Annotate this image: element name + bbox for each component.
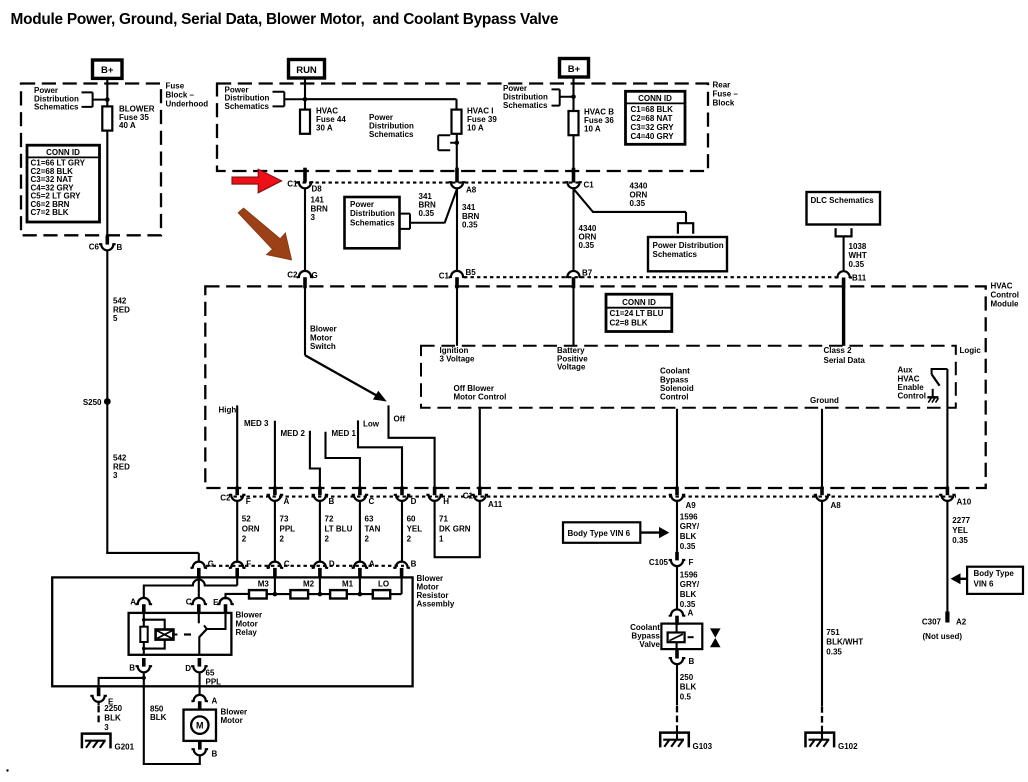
- connector pin H: [433, 487, 437, 496]
- chain segment: [267, 593, 291, 595]
- power symbol RUN: [289, 60, 325, 79]
- svg-text:MED 2: MED 2: [281, 429, 306, 438]
- valve actuator dash: [688, 636, 694, 638]
- blower motor relay box: [129, 613, 232, 655]
- connector pin E (ground lead): [97, 688, 101, 697]
- junction dot RUN: [303, 97, 308, 102]
- svg-text:B7: B7: [582, 269, 593, 278]
- CONN ID table (rear fuse block): [626, 91, 686, 144]
- svg-text:C1=24 LT BLU: C1=24 LT BLU: [610, 309, 664, 318]
- schematic ref box Power Distribution (4340): [648, 237, 727, 271]
- svg-text:B+: B+: [101, 65, 114, 76]
- chain segment: [308, 593, 330, 595]
- svg-text:Motor Control: Motor Control: [454, 393, 507, 402]
- svg-text:C: C: [186, 597, 192, 606]
- svg-text:BLK: BLK: [104, 714, 121, 723]
- svg-text:0.35: 0.35: [462, 220, 478, 229]
- wire B+ to fuse 35: [106, 78, 108, 106]
- svg-text:Control: Control: [660, 393, 688, 402]
- wire ground: [821, 409, 823, 488]
- aux switch ground: [932, 389, 934, 397]
- svg-text:A8: A8: [466, 186, 477, 195]
- svg-text:C1: C1: [584, 181, 595, 190]
- svg-text:High: High: [219, 406, 237, 415]
- coolant bypass valve pin A: [669, 609, 686, 615]
- svg-text:F: F: [246, 497, 251, 506]
- bracket fuse 39: [438, 135, 457, 150]
- splice S250: [104, 398, 111, 405]
- svg-text:C1: C1: [463, 492, 474, 501]
- svg-text:TAN: TAN: [365, 525, 381, 534]
- relay pin C: [191, 598, 208, 604]
- svg-text:B: B: [329, 497, 335, 506]
- wire D drop: [319, 577, 321, 594]
- svg-text:G201: G201: [115, 743, 135, 752]
- connector B11: [835, 271, 852, 277]
- logic dashed box: [421, 346, 956, 408]
- svg-text:Serial Data: Serial Data: [824, 356, 866, 365]
- wire 542 RED 3: [106, 403, 108, 554]
- svg-text:RUN: RUN: [296, 65, 317, 76]
- svg-text:G: G: [208, 560, 214, 569]
- svg-text:DK GRN: DK GRN: [439, 525, 471, 534]
- svg-text:B: B: [129, 664, 135, 673]
- relay coil (solenoid): [144, 620, 165, 630]
- relay pin E: [217, 598, 234, 604]
- bracket 341: [400, 214, 445, 229]
- blower motor switch arm: [305, 355, 378, 396]
- wire 1596 GRY/BLK lower: [676, 566, 678, 610]
- wire off blower control: [479, 409, 481, 488]
- svg-text:65: 65: [206, 669, 215, 678]
- wire A drop: [359, 577, 361, 594]
- svg-text:1038: 1038: [849, 242, 867, 251]
- relay pin D: [198, 658, 202, 667]
- svg-text:C3=32 GRY: C3=32 GRY: [631, 123, 675, 132]
- wire 1596 GRY/BLK: [676, 501, 678, 552]
- connector C1 (rear block): [572, 168, 576, 183]
- wire 72 LT BLU 2: [319, 501, 321, 562]
- svg-text:CONN ID: CONN ID: [638, 94, 672, 103]
- svg-text:1: 1: [439, 535, 444, 544]
- connector pin A (resistor assembly): [352, 562, 369, 568]
- svg-text:1596: 1596: [680, 570, 698, 579]
- svg-text:D: D: [411, 497, 417, 506]
- svg-text:72: 72: [325, 515, 334, 524]
- dotted connector line row3: [234, 496, 957, 498]
- wire 341 branch to A8: [445, 188, 458, 223]
- svg-text:3: 3: [311, 213, 316, 222]
- svg-text:Module Power, Ground, Serial D: Module Power, Ground, Serial Data, Blowe…: [11, 11, 559, 28]
- svg-text:Control: Control: [898, 392, 926, 401]
- wire 341 BRN 0.35 down: [456, 189, 458, 272]
- svg-text:S250: S250: [83, 398, 102, 407]
- svg-text:Body Type: Body Type: [974, 569, 1015, 578]
- junction dot: [105, 97, 110, 102]
- svg-text:M3: M3: [258, 580, 270, 589]
- svg-text:Ground: Ground: [810, 396, 839, 405]
- svg-text:A: A: [212, 697, 218, 706]
- bracket to wire (left): [82, 92, 108, 107]
- wire coolant bypass control: [676, 409, 678, 488]
- svg-text:C307: C307: [922, 618, 942, 627]
- brown arrow marker: [238, 208, 291, 260]
- svg-text:10 A: 10 A: [467, 123, 484, 132]
- connector C105 pin F: [675, 552, 679, 561]
- svg-text:ORN: ORN: [242, 525, 260, 534]
- relay pin B: [142, 658, 146, 667]
- svg-text:E: E: [213, 598, 219, 607]
- svg-text:C: C: [284, 560, 290, 569]
- svg-text:BLK: BLK: [150, 713, 167, 722]
- svg-text:F: F: [689, 558, 694, 567]
- wire RUN bus to fuse 39: [305, 98, 457, 100]
- aux hvac enable switch: [932, 369, 948, 374]
- svg-text:B+: B+: [568, 64, 581, 75]
- dotted connector line row4: [206, 565, 404, 567]
- wire 52 ORN 2: [236, 501, 238, 562]
- svg-text:Block: Block: [713, 99, 735, 108]
- dashed wire to G102: [821, 706, 823, 726]
- svg-text:YEL: YEL: [407, 525, 423, 534]
- schematic ref box DLC Schematics: [807, 192, 881, 225]
- CONN ID table (underhood): [27, 145, 100, 222]
- chain end to B: [390, 593, 401, 595]
- connector pin D (resistor assembly): [312, 562, 329, 568]
- svg-text:MED 1: MED 1: [332, 429, 357, 438]
- svg-text:3 Voltage: 3 Voltage: [440, 354, 476, 363]
- svg-text:A: A: [369, 560, 375, 569]
- svg-text:Class 2: Class 2: [824, 346, 853, 355]
- svg-text:Motor: Motor: [221, 716, 243, 725]
- svg-text:WHT: WHT: [849, 251, 867, 260]
- svg-text:PPL: PPL: [206, 677, 222, 686]
- connector pin C (resistor assembly): [267, 562, 284, 568]
- svg-text:F: F: [246, 560, 251, 569]
- connector pin A9: [675, 487, 679, 496]
- svg-text:A9: A9: [686, 501, 697, 510]
- svg-text:PPL: PPL: [280, 525, 296, 534]
- svg-text:C7=2 BLK: C7=2 BLK: [31, 208, 69, 217]
- branch to G201: [99, 678, 144, 688]
- wire G to relay C: [198, 577, 200, 598]
- svg-text:2277: 2277: [952, 516, 970, 525]
- connector C2 pin G: [297, 271, 314, 277]
- wire aux to A10: [946, 369, 948, 487]
- bracket to B+ wire (rear): [552, 89, 574, 105]
- svg-text:HVAC: HVAC: [991, 282, 1013, 291]
- svg-text:C2=8 BLK: C2=8 BLK: [610, 318, 648, 327]
- connector pin F: [235, 487, 239, 496]
- svg-text:40 A: 40 A: [119, 121, 136, 130]
- svg-text:Distribution: Distribution: [350, 209, 395, 218]
- svg-text:0.35: 0.35: [952, 536, 968, 545]
- connector C307 pin A2 (not used): [945, 612, 949, 623]
- svg-text:C6: C6: [89, 243, 100, 252]
- svg-text:30 A: 30 A: [316, 123, 333, 132]
- connector A8: [455, 168, 459, 183]
- ground G201: [82, 734, 111, 749]
- svg-text:60: 60: [407, 515, 416, 524]
- connector B7: [565, 271, 582, 277]
- wire fuse 35 to C6: [106, 131, 108, 236]
- wire C drop: [274, 577, 276, 594]
- wire B5 into module: [456, 287, 458, 346]
- svg-text:Voltage: Voltage: [557, 363, 586, 372]
- svg-text:Valve: Valve: [639, 640, 660, 649]
- svg-text:B: B: [117, 243, 123, 252]
- svg-text:A: A: [284, 497, 290, 506]
- wire 73 PPL 2: [274, 501, 276, 562]
- svg-text:Fuse –: Fuse –: [713, 90, 739, 99]
- svg-text:Off: Off: [394, 414, 406, 423]
- resistor LO: [373, 590, 390, 598]
- svg-text:BLK: BLK: [680, 590, 697, 599]
- CONN ID table (HVAC module): [606, 294, 672, 331]
- svg-text:A10: A10: [957, 497, 972, 506]
- svg-text:73: 73: [280, 515, 289, 524]
- blower motor: [191, 695, 208, 701]
- coolant bypass valve pin B: [675, 650, 679, 659]
- svg-text:A2: A2: [956, 618, 967, 627]
- coolant bypass valve: [661, 624, 702, 650]
- relay coil resistor: [143, 614, 145, 627]
- svg-text:10 A: 10 A: [584, 124, 601, 133]
- top fuse panel dashed box: [217, 84, 708, 172]
- relay switch: [198, 614, 200, 624]
- dotted connector line row2: [464, 276, 836, 278]
- svg-text:C2: C2: [287, 270, 298, 279]
- wire B+ rear down: [572, 77, 574, 111]
- svg-text:C105: C105: [649, 558, 669, 567]
- ground G102: [806, 733, 835, 748]
- blower motor pin B: [198, 741, 202, 750]
- svg-text:Underhood: Underhood: [166, 100, 209, 109]
- fuse HVAC I Fuse 39 10A: [452, 110, 462, 134]
- wire C2 G into module: [304, 287, 306, 356]
- svg-text:3: 3: [113, 471, 118, 480]
- svg-text:C1=68 BLK: C1=68 BLK: [631, 105, 674, 114]
- svg-text:MED 3: MED 3: [244, 419, 269, 428]
- svg-text:Rear: Rear: [713, 81, 731, 90]
- svg-text:GRY/: GRY/: [680, 580, 700, 589]
- svg-text:2: 2: [365, 535, 370, 544]
- svg-text:C2=68 NAT: C2=68 NAT: [631, 114, 673, 123]
- fork from DLC box: [836, 228, 852, 236]
- wire 141 BRN 3: [304, 189, 306, 272]
- connector C1 pin D8: [303, 168, 307, 183]
- wire D to blower motor: [199, 673, 201, 695]
- svg-text:Relay: Relay: [236, 628, 258, 637]
- wire 1038 WHT 0.35: [843, 236, 845, 272]
- wire motor return: [143, 756, 200, 764]
- schematic ref box Power Distribution (341): [345, 197, 400, 248]
- svg-text:D: D: [185, 664, 191, 673]
- HVAC control module dashed box: [205, 286, 985, 488]
- callout Body Type VIN 6 (left): [563, 522, 640, 543]
- connector pin B: [318, 487, 322, 496]
- power symbol B+ (underhood): [93, 60, 123, 78]
- svg-text:C: C: [369, 497, 375, 506]
- svg-text:H: H: [443, 497, 449, 506]
- valve symbol: [710, 628, 721, 637]
- wire 4340 branch: [574, 189, 594, 212]
- fuse block underhood dashed box: [21, 84, 161, 236]
- svg-text:YEL: YEL: [952, 526, 968, 535]
- fuse HVAC B Fuse 36 10A: [569, 111, 579, 135]
- svg-text:VIN 6: VIN 6: [974, 580, 995, 589]
- wire 63 TAN 2: [359, 501, 361, 562]
- svg-text:Logic: Logic: [960, 346, 982, 355]
- connector C1 pin B5: [449, 271, 466, 277]
- svg-text:0.5: 0.5: [680, 692, 692, 701]
- svg-text:B: B: [411, 560, 417, 569]
- svg-text:Schematics: Schematics: [225, 102, 270, 111]
- svg-text:M1: M1: [342, 580, 354, 589]
- svg-text:C1: C1: [287, 179, 298, 188]
- wire 2277 YEL 0.35: [946, 501, 948, 612]
- connector C1 pin A11: [478, 487, 482, 496]
- wire relay A feed: [236, 577, 238, 585]
- svg-text:2: 2: [325, 535, 330, 544]
- svg-text:CONN ID: CONN ID: [622, 298, 656, 307]
- blower motor resistor assembly box: [52, 577, 412, 686]
- svg-text:A8: A8: [831, 501, 842, 510]
- connector pin A10: [946, 487, 950, 496]
- connector pin C: [358, 487, 362, 496]
- fuse HVAC Fuse 44 30A: [300, 110, 310, 134]
- svg-text:G: G: [312, 271, 318, 280]
- svg-text:63: 63: [365, 515, 374, 524]
- relay actuator dashes: [173, 634, 177, 636]
- svg-text:BLK: BLK: [680, 532, 697, 541]
- svg-text:Low: Low: [363, 420, 380, 429]
- svg-text:B: B: [212, 750, 218, 759]
- svg-text:DLC Schematics: DLC Schematics: [811, 196, 875, 205]
- svg-text:Schematics: Schematics: [350, 218, 395, 227]
- connector pin G (resistor assembly): [191, 562, 208, 568]
- svg-text:0.35: 0.35: [579, 241, 595, 250]
- svg-text:52: 52: [242, 515, 251, 524]
- svg-text:B: B: [689, 657, 695, 666]
- svg-text:1596: 1596: [680, 512, 698, 521]
- svg-text:A: A: [130, 597, 136, 606]
- svg-text:D: D: [329, 560, 335, 569]
- wire B7 into module: [572, 287, 574, 346]
- wire jumper H to A11: [435, 501, 480, 557]
- svg-text:(Not used): (Not used): [923, 632, 963, 641]
- red arrow marker: [232, 169, 282, 193]
- wire B11 into module: [842, 287, 845, 346]
- svg-text:Body Type VIN 6: Body Type VIN 6: [568, 529, 631, 538]
- svg-text:751: 751: [826, 628, 840, 637]
- svg-text:Block –: Block –: [166, 91, 195, 100]
- resistor M3: [249, 590, 267, 598]
- connector pin D: [400, 487, 404, 496]
- dotted connector line row1: [296, 182, 581, 184]
- svg-text:Fuse: Fuse: [166, 82, 185, 91]
- svg-text:B11: B11: [852, 274, 867, 283]
- svg-text:GRY/: GRY/: [680, 522, 700, 531]
- svg-text:B5: B5: [466, 268, 477, 277]
- wire to resistor assembly G: [106, 552, 199, 554]
- svg-text:0.35: 0.35: [419, 209, 435, 218]
- svg-text:Power Distribution: Power Distribution: [653, 241, 724, 250]
- svg-text:G102: G102: [838, 742, 858, 751]
- ground G103: [660, 733, 689, 748]
- svg-text:D8: D8: [312, 185, 323, 194]
- wire 751 BLK/WHT: [821, 501, 823, 706]
- svg-text:0.35: 0.35: [680, 542, 696, 551]
- svg-text:C2: C2: [220, 494, 231, 503]
- connector pin F (resistor assembly): [229, 562, 246, 568]
- svg-text:Switch: Switch: [310, 342, 336, 351]
- svg-text:0.35: 0.35: [849, 260, 865, 269]
- svg-text:BLK/WHT: BLK/WHT: [826, 638, 863, 647]
- connector pin B (resistor assembly): [393, 562, 410, 568]
- svg-text:Schematics: Schematics: [503, 101, 548, 110]
- wire fuse 39 down: [456, 134, 458, 175]
- svg-text:BLK: BLK: [680, 683, 697, 692]
- svg-text:2: 2: [280, 535, 285, 544]
- svg-text:Schematics: Schematics: [34, 103, 79, 112]
- resistor M1: [330, 590, 347, 598]
- stray mark: [6, 769, 8, 771]
- connector pin A: [273, 487, 277, 496]
- dashed wire to G103: [676, 706, 678, 727]
- callout Body Type VIN 6 (right): [967, 567, 1023, 594]
- svg-text:Control: Control: [991, 291, 1019, 300]
- fuse BLOWER Fuse 35 40A: [102, 106, 112, 130]
- relay E contact: [207, 614, 226, 630]
- svg-text:2250: 2250: [104, 704, 122, 713]
- fork to ref box: [678, 223, 693, 234]
- wire 60 YEL 2: [401, 501, 403, 562]
- svg-text:C1: C1: [439, 271, 450, 280]
- wire 542 RED 5: [106, 251, 108, 399]
- svg-text:Schematics: Schematics: [369, 130, 414, 139]
- svg-text:Module: Module: [991, 300, 1020, 309]
- dashed wire to G201: [98, 702, 100, 705]
- svg-text:M2: M2: [303, 580, 315, 589]
- relay pin A: [136, 598, 153, 604]
- svg-text:G103: G103: [693, 742, 713, 751]
- svg-text:2: 2: [407, 535, 412, 544]
- svg-text:Assembly: Assembly: [417, 600, 455, 609]
- bracket to RUN wire: [273, 92, 306, 107]
- svg-text:M: M: [196, 721, 204, 731]
- svg-text:5: 5: [113, 314, 118, 323]
- svg-text:A11: A11: [488, 500, 503, 509]
- wire RUN down: [304, 78, 306, 110]
- svg-text:0.35: 0.35: [630, 199, 646, 208]
- svg-text:Power: Power: [350, 200, 374, 209]
- wire 250 BLK 0.5: [676, 665, 678, 706]
- power symbol B+ (rear): [560, 59, 589, 78]
- svg-text:LO: LO: [378, 580, 389, 589]
- svg-text:0.35: 0.35: [826, 647, 842, 656]
- svg-text:250: 250: [680, 673, 694, 682]
- wire fuse 36 down: [572, 135, 574, 175]
- svg-text:C4=40 GRY: C4=40 GRY: [631, 132, 675, 141]
- wire 850 BLK from relay B: [143, 673, 145, 764]
- wire 4340 ORN 0.35 down: [572, 189, 574, 272]
- resistor M2: [290, 590, 308, 598]
- svg-text:A: A: [688, 608, 694, 617]
- svg-text:3: 3: [104, 723, 109, 732]
- svg-text:CONN ID: CONN ID: [46, 148, 80, 157]
- connector C6 pin B: [106, 236, 110, 245]
